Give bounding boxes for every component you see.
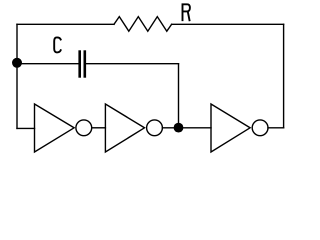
capacitor C plate 1 <box>78 52 81 77</box>
wire <box>283 24 285 128</box>
inverter U3 bubble <box>252 120 268 136</box>
wire <box>86 63 178 65</box>
label C <box>54 37 61 52</box>
wire <box>92 127 106 129</box>
capacitor C plate 2 <box>84 52 87 77</box>
wire <box>172 23 284 25</box>
inverter U2 triangle <box>105 104 144 152</box>
inverter U1 bubble <box>76 120 92 136</box>
node B junction dot <box>174 123 184 133</box>
wire <box>162 127 211 129</box>
wire <box>16 24 18 128</box>
label R <box>183 4 190 20</box>
wire <box>268 127 284 129</box>
wire <box>17 127 35 129</box>
inverter U3 triangle <box>211 104 250 152</box>
wire <box>178 64 180 128</box>
wire <box>17 63 78 65</box>
resistor R <box>114 17 172 32</box>
inverter U2 bubble <box>147 120 163 136</box>
node A junction dot <box>12 58 22 68</box>
wire <box>17 23 114 25</box>
inverter U1 triangle <box>35 104 75 152</box>
